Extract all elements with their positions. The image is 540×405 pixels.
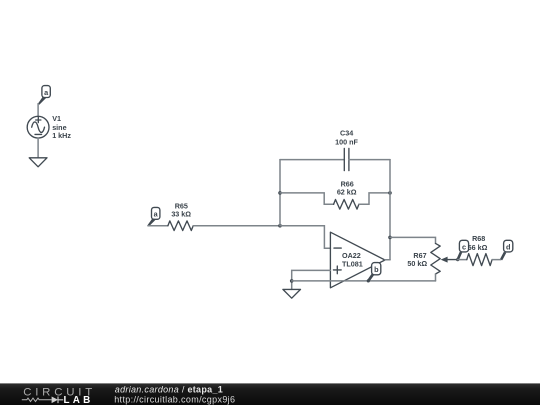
wire node to op-amp inverting input — [280, 226, 330, 249]
voltage source V1 — [27, 116, 49, 138]
wire input to R65 — [148, 225, 168, 227]
wire op-amp non-inverting input — [292, 270, 331, 289]
ground (V1) — [29, 158, 47, 167]
svg-text:100 nF: 100 nF — [335, 137, 358, 146]
svg-text:C34: C34 — [340, 128, 353, 137]
svg-text:LAB: LAB — [64, 395, 94, 405]
wire feedback left vertical — [279, 160, 281, 226]
junction ground node — [290, 279, 294, 283]
wire wiper to R68 — [458, 259, 467, 261]
svg-text:adrian.cardona / etapa_1: adrian.cardona / etapa_1 — [115, 384, 223, 394]
svg-text:R68: R68 — [472, 234, 485, 243]
op-amp OA22 — [330, 232, 385, 288]
CircuitLab logo resistor squiggle — [22, 398, 52, 401]
svg-text:c: c — [462, 242, 466, 251]
svg-text:http://circuitlab.com/cgpx9j6: http://circuitlab.com/cgpx9j6 — [114, 394, 235, 404]
wire op-amp output — [385, 259, 390, 261]
node a flag at V1 — [38, 86, 50, 105]
junction R66 right — [388, 191, 392, 195]
svg-text:50 kΩ: 50 kΩ — [407, 259, 427, 268]
wire feedback top left — [280, 159, 344, 161]
ground (op-amp) — [283, 289, 301, 298]
capacitor C34 — [344, 148, 349, 170]
svg-text:1 kHz: 1 kHz — [52, 131, 71, 140]
svg-text:b: b — [374, 265, 379, 274]
svg-text:TL081: TL081 — [342, 260, 363, 269]
svg-text:56 kΩ: 56 kΩ — [468, 243, 488, 252]
junction inverting node — [278, 224, 282, 228]
resistor R66 — [280, 193, 390, 209]
wire V1 top — [37, 104, 39, 117]
wire output to R67 top — [390, 237, 436, 243]
junction output to pot branch — [388, 236, 392, 240]
wire feedback top right — [349, 159, 390, 161]
junction R66 left — [278, 191, 282, 195]
node c flag — [457, 240, 469, 260]
resistor R65 — [168, 221, 193, 231]
node b flag — [367, 263, 381, 282]
potentiometer R67 — [431, 243, 458, 281]
junction node c attach — [456, 258, 459, 261]
node d flag — [500, 240, 513, 260]
wire bottom rail — [292, 280, 436, 282]
wire R68 to node d — [492, 259, 501, 261]
junction node b attach — [367, 279, 370, 282]
wire R65 to node — [193, 225, 280, 227]
wire V1 bottom — [37, 138, 39, 158]
svg-text:d: d — [506, 242, 510, 251]
node a flag at input — [147, 207, 160, 226]
svg-text:62 kΩ: 62 kΩ — [337, 187, 357, 196]
resistor R68 — [467, 254, 492, 266]
wire feedback right vertical — [389, 160, 391, 260]
CircuitLab logo diode — [52, 397, 64, 404]
svg-text:33 kΩ: 33 kΩ — [171, 210, 191, 219]
